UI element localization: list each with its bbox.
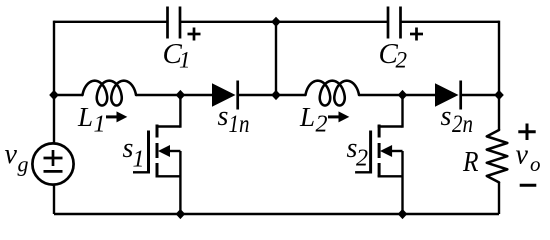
label s2n (441, 101, 474, 138)
svg-text:2: 2 (316, 112, 328, 138)
node right vertical junction (494, 90, 504, 100)
resistor R (487, 130, 508, 182)
svg-text:v: v (5, 139, 18, 170)
svg-text:1: 1 (179, 48, 191, 73)
diode s1n (212, 81, 238, 110)
svg-text:1: 1 (133, 147, 145, 173)
transistor s2 MOSFET (355, 95, 402, 214)
svg-text:R: R (462, 146, 479, 178)
label s2 (347, 133, 369, 172)
node MOSFET1 source junction (176, 209, 186, 219)
L2 current arrow (328, 111, 349, 122)
svg-text:2: 2 (356, 146, 368, 172)
diode s2n (435, 81, 461, 110)
wire middle vertical (275, 22, 277, 95)
label R (462, 146, 479, 178)
L1 current arrow (106, 111, 127, 122)
label L1 (77, 102, 106, 138)
svg-text:2n: 2n (452, 111, 473, 138)
node MOSFET1 drain junction (176, 90, 186, 100)
wire left vertical upper (53, 21, 55, 144)
label vo (516, 140, 541, 177)
wire top rail right segment (402, 21, 500, 23)
wire top rail left segment (54, 21, 167, 23)
transistor s1 MOSFET (133, 95, 180, 214)
inductor L1 (83, 81, 137, 106)
output plus sign (518, 124, 535, 141)
wire right vertical lower (498, 182, 500, 214)
wire left vertical lower (53, 184, 55, 214)
svg-text:o: o (530, 152, 541, 176)
svg-text:s: s (441, 101, 452, 132)
wire right vertical upper (498, 21, 500, 130)
source vg (32, 143, 73, 184)
svg-text:v: v (516, 140, 529, 171)
label C1 (163, 38, 191, 73)
svg-text:L: L (77, 102, 93, 132)
label s1n (218, 101, 250, 138)
node MOSFET2 drain junction (398, 90, 408, 100)
wire middle rail segment 1 (54, 94, 83, 96)
svg-text:1n: 1n (229, 111, 250, 138)
svg-text:L: L (299, 102, 315, 132)
svg-text:2: 2 (396, 48, 408, 73)
svg-text:g: g (18, 152, 29, 177)
wire middle rail segment 4 (359, 94, 435, 96)
output minus sign (520, 184, 537, 187)
node junction top rail (271, 17, 281, 27)
wire top rail middle segment (181, 21, 388, 23)
node MOSFET2 source junction (398, 209, 408, 219)
label C2 (379, 38, 408, 73)
wire middle rail segment 5 (462, 94, 500, 96)
inductor L2 (306, 81, 360, 106)
svg-text:1: 1 (94, 112, 106, 138)
label vg (5, 139, 29, 177)
capacitor C1 (168, 7, 201, 41)
node left middle junction (49, 90, 59, 100)
label s1 (123, 133, 145, 173)
wire middle rail segment 2 (136, 94, 212, 96)
wire middle rail segment 3 (239, 94, 306, 96)
node middle vertical top junction (271, 90, 281, 100)
capacitor C2 (388, 7, 423, 41)
svg-text:s: s (218, 101, 229, 132)
wire bottom rail (54, 213, 499, 215)
label L2 (299, 102, 328, 138)
